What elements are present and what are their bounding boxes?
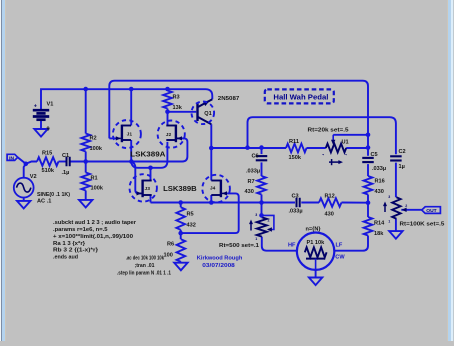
svg-text:IN: IN (9, 155, 14, 161)
svg-text:Kirkwood Rough: Kirkwood Rough (197, 256, 243, 262)
svg-text:R14: R14 (374, 220, 385, 226)
svg-text:Rb 3 2 {(1-x)*r}: Rb 3 2 {(1-x)*r} (53, 248, 99, 254)
svg-text:3: 3 (388, 195, 390, 199)
svg-text:430: 430 (325, 211, 334, 217)
svg-text:100k: 100k (90, 146, 103, 152)
svg-text:Rt=100K set=.5: Rt=100K set=.5 (400, 222, 445, 228)
svg-text:Rt=20k set=.5: Rt=20k set=.5 (308, 127, 349, 133)
svg-text:.params r=1e6, n=.5: .params r=1e6, n=.5 (53, 227, 108, 233)
svg-text:R12: R12 (325, 194, 335, 200)
svg-text:n={N}: n={N} (306, 226, 322, 232)
svg-text:9: 9 (47, 127, 50, 133)
svg-text:.ac dec 10k 100 10k: .ac dec 10k 100 10k (126, 256, 165, 262)
svg-text:2: 2 (268, 219, 270, 223)
svg-text:430: 430 (375, 189, 384, 195)
svg-text:1: 1 (255, 237, 257, 241)
svg-text:1: 1 (388, 220, 390, 224)
svg-text:.033µ: .033µ (246, 168, 260, 174)
svg-text:U1: U1 (342, 140, 349, 146)
svg-text:OUT: OUT (426, 208, 436, 214)
svg-text:Rt=500 set=.1: Rt=500 set=.1 (219, 243, 259, 249)
svg-text:LSK389B: LSK389B (163, 186, 197, 193)
svg-text:HF: HF (288, 242, 296, 248)
svg-text:03/07/2008: 03/07/2008 (202, 263, 235, 269)
svg-text:R1: R1 (91, 175, 98, 181)
svg-text:LSK389A: LSK389A (130, 151, 165, 158)
svg-text:2: 2 (405, 204, 407, 208)
svg-text:R5: R5 (187, 211, 194, 217)
svg-text:.1µ: .1µ (62, 170, 70, 176)
svg-text:J1: J1 (127, 132, 133, 138)
svg-text:2N5087: 2N5087 (218, 96, 240, 102)
svg-text:432: 432 (187, 222, 196, 228)
svg-text:510k: 510k (42, 168, 55, 174)
svg-text:R15: R15 (42, 151, 52, 157)
svg-text:R6: R6 (167, 242, 174, 248)
svg-text:J4: J4 (210, 185, 216, 191)
svg-text:R3: R3 (173, 95, 180, 101)
svg-text:+: + (34, 103, 37, 109)
svg-text:C2: C2 (399, 149, 406, 155)
svg-text:.step lin param N .01 1 .1: .step lin param N .01 1 .1 (117, 270, 171, 276)
svg-text:R11: R11 (289, 139, 299, 145)
svg-text:Q1: Q1 (204, 111, 211, 117)
svg-text:¬: ¬ (322, 153, 324, 157)
svg-text:R7: R7 (248, 179, 255, 185)
svg-text:Ra 1 3 {x*r}: Ra 1 3 {x*r} (53, 241, 86, 247)
svg-text:C3: C3 (292, 193, 299, 199)
svg-text:13k: 13k (173, 105, 183, 111)
svg-text:+ x=100**limit(.01,n,.99)/100: + x=100**limit(.01,n,.99)/100 (53, 234, 133, 240)
svg-text:AC .1: AC .1 (37, 198, 51, 204)
svg-text:R2: R2 (90, 136, 97, 142)
svg-text:.subckt aud 1 2 3 ; audio tape: .subckt aud 1 2 3 ; audio taper (53, 220, 137, 226)
svg-text:430: 430 (245, 189, 254, 195)
svg-text:J3: J3 (145, 186, 151, 192)
svg-text:1µ: 1µ (399, 164, 405, 170)
svg-text:C5: C5 (371, 152, 378, 158)
svg-text:100: 100 (164, 253, 173, 259)
svg-text:;tran .01: ;tran .01 (135, 263, 155, 269)
svg-text:.ends aud: .ends aud (53, 254, 78, 260)
svg-text:18k: 18k (374, 231, 384, 237)
svg-text:C6: C6 (252, 153, 259, 159)
svg-text:3: 3 (255, 213, 257, 217)
svg-text:150k: 150k (289, 155, 302, 161)
svg-text:SINE(0 .1 1K): SINE(0 .1 1K) (37, 192, 70, 198)
svg-text:P1 10k: P1 10k (307, 240, 326, 246)
svg-text:100k: 100k (91, 186, 104, 192)
svg-text:.033µ: .033µ (372, 166, 386, 172)
svg-text:.033µ: .033µ (289, 208, 303, 214)
svg-text:¬: ¬ (345, 153, 347, 157)
svg-text:CW: CW (335, 254, 345, 260)
svg-text:Hall Wah Pedal: Hall Wah Pedal (273, 95, 328, 102)
svg-text:R16: R16 (375, 178, 385, 184)
svg-text:V1: V1 (47, 102, 54, 108)
svg-text:V2: V2 (30, 174, 37, 180)
svg-text:C1: C1 (62, 153, 69, 159)
svg-text:J2: J2 (166, 132, 172, 138)
svg-text:LF: LF (336, 242, 343, 248)
